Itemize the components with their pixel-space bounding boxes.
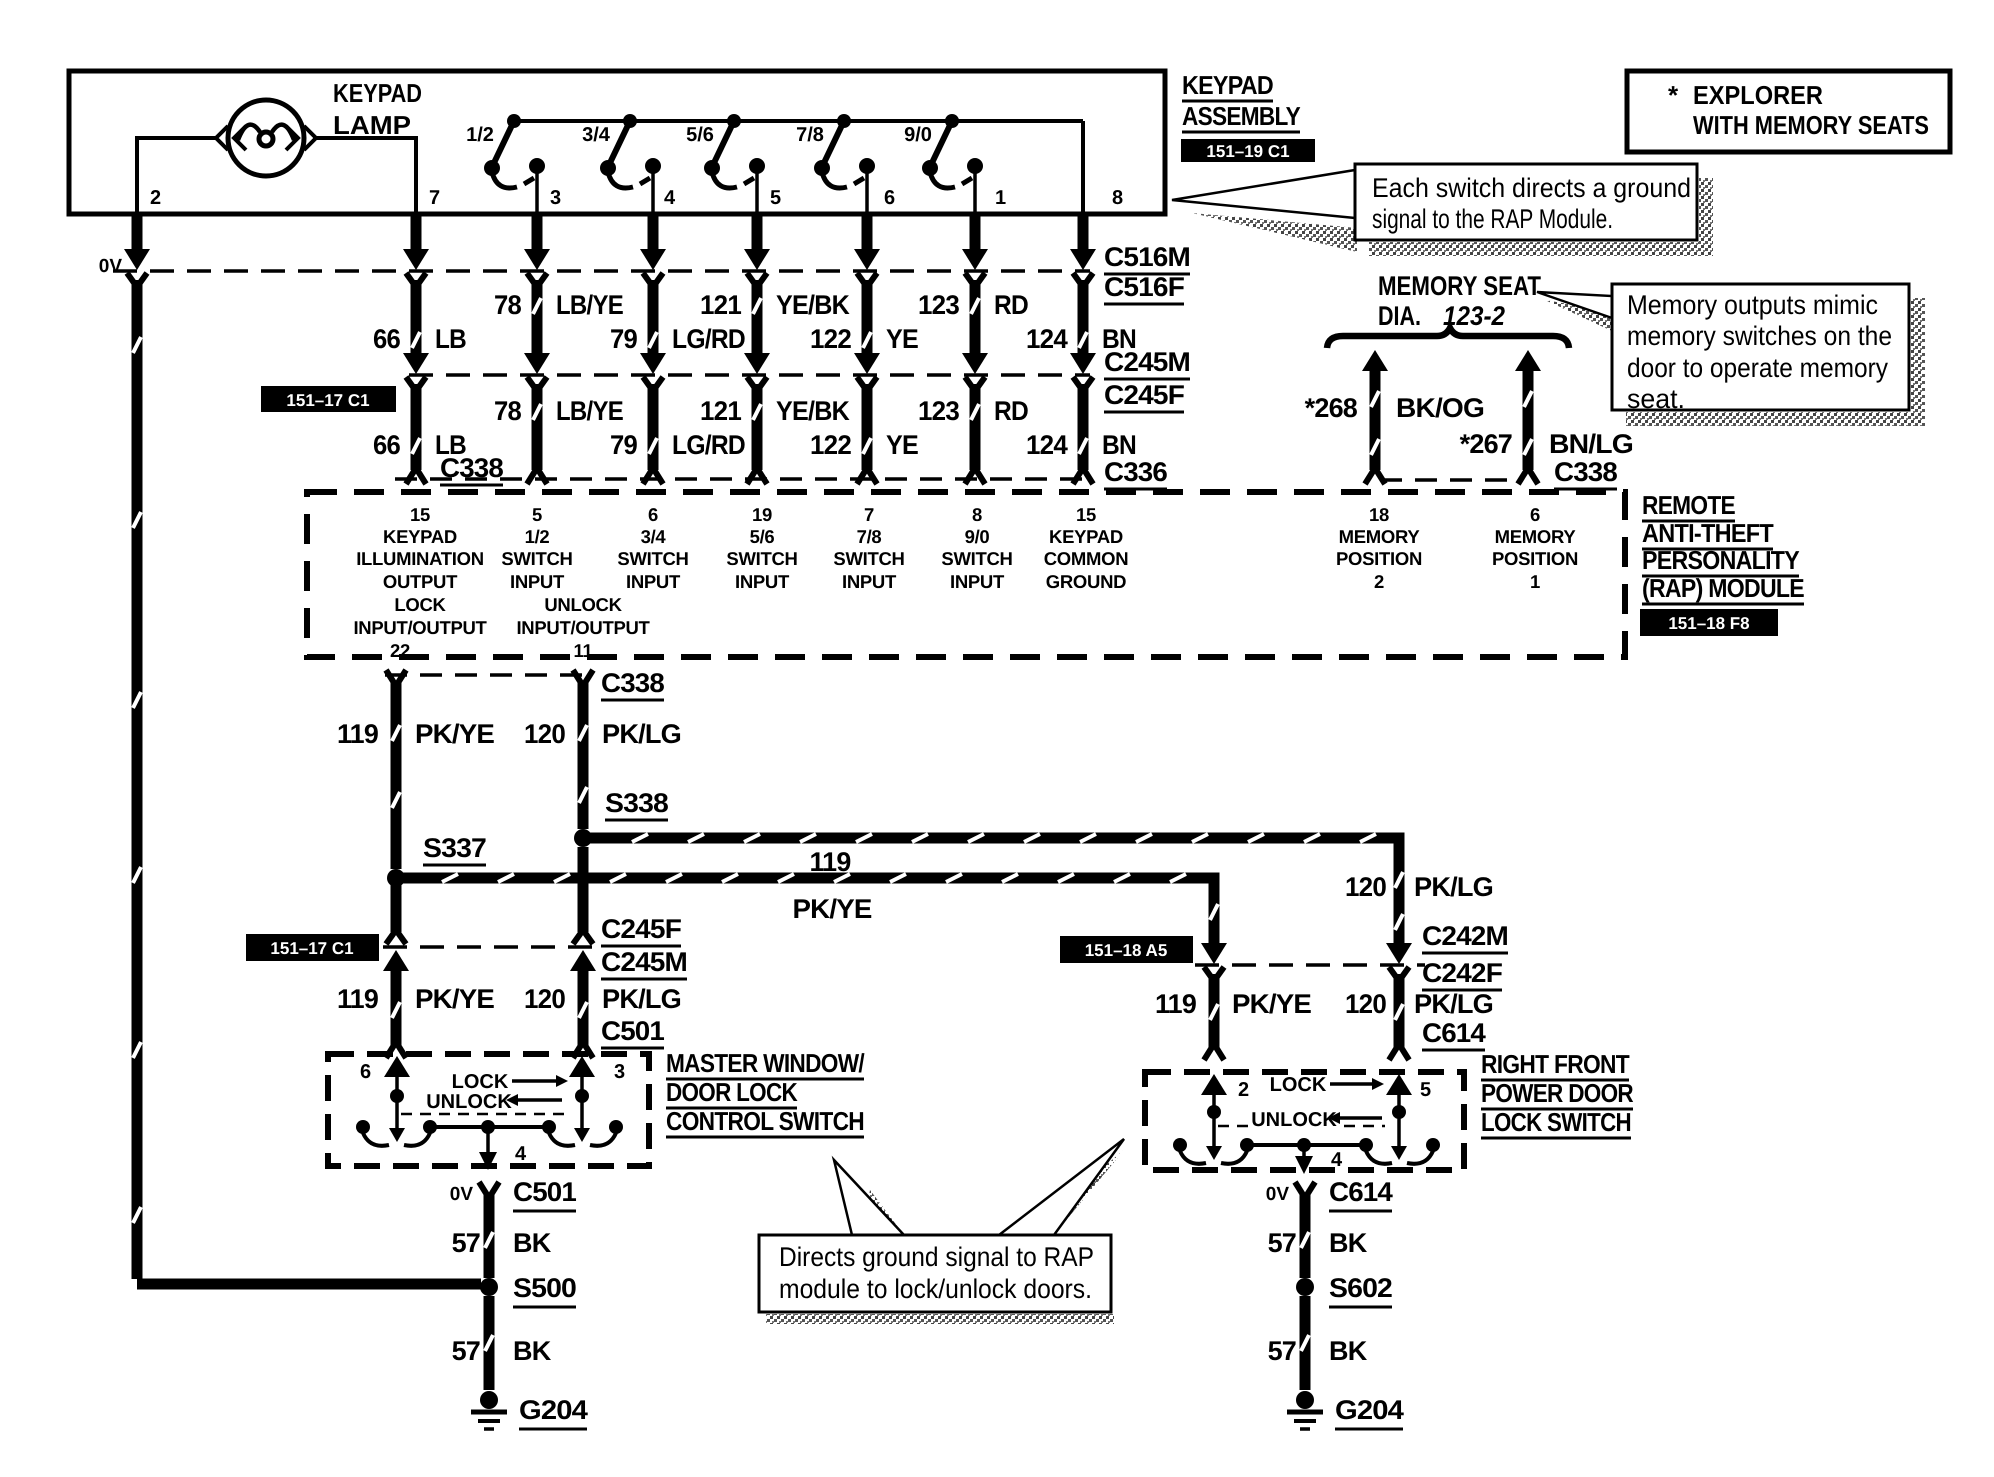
svg-text:78: 78 xyxy=(494,290,522,320)
svg-text:3/4: 3/4 xyxy=(641,526,667,547)
svg-text:C516F: C516F xyxy=(1104,272,1184,302)
svg-text:INPUT/OUTPUT: INPUT/OUTPUT xyxy=(353,617,487,638)
svg-text:120: 120 xyxy=(1345,872,1386,902)
svg-text:DOOR LOCK: DOOR LOCK xyxy=(666,1077,798,1107)
svg-text:INPUT: INPUT xyxy=(626,571,681,592)
svg-text:LG/RD: LG/RD xyxy=(672,324,745,354)
svg-text:PK/YE: PK/YE xyxy=(415,984,494,1014)
svg-text:DIA.: DIA. xyxy=(1378,301,1421,331)
svg-text:C501: C501 xyxy=(601,1016,665,1046)
svg-text:PK/LG: PK/LG xyxy=(1414,872,1493,902)
svg-text:S337: S337 xyxy=(423,833,486,863)
svg-text:YE: YE xyxy=(886,430,918,460)
svg-text:4: 4 xyxy=(1331,1149,1343,1171)
svg-text:BK/OG: BK/OG xyxy=(1396,393,1484,423)
svg-text:57: 57 xyxy=(452,1336,480,1366)
svg-text:6: 6 xyxy=(884,187,895,209)
svg-text:INPUT: INPUT xyxy=(950,571,1005,592)
svg-text:7: 7 xyxy=(864,504,874,525)
svg-text:KEYPAD: KEYPAD xyxy=(333,78,422,108)
svg-text:57: 57 xyxy=(1268,1228,1296,1258)
svg-text:POSITION: POSITION xyxy=(1336,548,1422,569)
svg-text:5: 5 xyxy=(1420,1079,1431,1101)
svg-text:BN: BN xyxy=(1102,430,1136,460)
svg-text:LOCK SWITCH: LOCK SWITCH xyxy=(1481,1107,1631,1137)
svg-text:121: 121 xyxy=(700,396,742,426)
svg-text:YE: YE xyxy=(886,324,918,354)
svg-text:151–17 C1: 151–17 C1 xyxy=(270,939,353,958)
svg-text:2: 2 xyxy=(1238,1079,1249,1101)
svg-text:LOCK: LOCK xyxy=(394,594,446,615)
svg-text:123: 123 xyxy=(918,396,960,426)
svg-text:5: 5 xyxy=(770,187,781,209)
svg-text:memory switches on the: memory switches on the xyxy=(1627,321,1892,351)
svg-text:LB/YE: LB/YE xyxy=(556,396,623,426)
svg-text:119: 119 xyxy=(337,984,379,1014)
svg-text:KEYPAD: KEYPAD xyxy=(1049,526,1123,547)
svg-text:G204: G204 xyxy=(1335,1395,1404,1425)
svg-text:2: 2 xyxy=(1374,571,1384,592)
svg-text:C338: C338 xyxy=(1554,457,1618,487)
svg-text:151–19 C1: 151–19 C1 xyxy=(1206,142,1289,161)
svg-text:YE/BK: YE/BK xyxy=(776,396,850,426)
svg-text:0V: 0V xyxy=(450,1184,474,1205)
svg-text:S602: S602 xyxy=(1329,1273,1392,1303)
svg-text:6: 6 xyxy=(1530,504,1540,525)
svg-text:22: 22 xyxy=(390,640,410,661)
svg-text:151–17 C1: 151–17 C1 xyxy=(286,391,369,410)
svg-text:LB: LB xyxy=(435,324,466,354)
svg-text:KEYPAD: KEYPAD xyxy=(1182,70,1273,100)
svg-text:POSITION: POSITION xyxy=(1492,548,1578,569)
svg-text:151–18 F8: 151–18 F8 xyxy=(1668,614,1749,633)
svg-text:15: 15 xyxy=(410,504,430,525)
svg-text:5: 5 xyxy=(532,504,542,525)
svg-text:UNLOCK: UNLOCK xyxy=(426,1091,512,1113)
svg-text:C338: C338 xyxy=(440,453,504,483)
svg-text:7/8: 7/8 xyxy=(796,124,824,146)
svg-text:SWITCH: SWITCH xyxy=(941,548,1012,569)
svg-text:57: 57 xyxy=(1268,1336,1296,1366)
svg-text:ILLUMINATION: ILLUMINATION xyxy=(356,548,484,569)
svg-text:S500: S500 xyxy=(513,1273,576,1303)
svg-text:INPUT: INPUT xyxy=(735,571,790,592)
svg-text:120: 120 xyxy=(1345,989,1386,1019)
svg-text:signal to the RAP Module.: signal to the RAP Module. xyxy=(1372,204,1613,234)
svg-text:LG/RD: LG/RD xyxy=(672,430,745,460)
svg-text:G204: G204 xyxy=(519,1395,588,1425)
svg-text:3: 3 xyxy=(614,1061,625,1083)
svg-text:SWITCH: SWITCH xyxy=(726,548,797,569)
svg-text:119: 119 xyxy=(1155,989,1197,1019)
svg-text:PK/YE: PK/YE xyxy=(415,719,494,749)
svg-text:RD: RD xyxy=(994,396,1028,426)
svg-text:7: 7 xyxy=(429,187,440,209)
svg-text:Memory outputs mimic: Memory outputs mimic xyxy=(1627,290,1878,320)
svg-text:C245M: C245M xyxy=(601,947,687,977)
svg-text:79: 79 xyxy=(610,324,638,354)
svg-text:BN/LG: BN/LG xyxy=(1549,429,1633,459)
svg-text:1/2: 1/2 xyxy=(525,526,550,547)
svg-text:S338: S338 xyxy=(605,788,669,818)
svg-text:*: * xyxy=(1668,80,1679,110)
svg-text:PK/LG: PK/LG xyxy=(602,984,681,1014)
svg-text:EXPLORER: EXPLORER xyxy=(1693,80,1823,110)
svg-text:7/8: 7/8 xyxy=(857,526,882,547)
svg-text:MEMORY: MEMORY xyxy=(1339,526,1421,547)
svg-text:LAMP: LAMP xyxy=(333,110,411,140)
svg-text:3: 3 xyxy=(550,187,561,209)
svg-text:PK/LG: PK/LG xyxy=(1414,989,1493,1019)
svg-text:REMOTE: REMOTE xyxy=(1642,490,1735,520)
svg-text:15: 15 xyxy=(1076,504,1096,525)
svg-text:C338: C338 xyxy=(601,668,665,698)
svg-text:LOCK: LOCK xyxy=(1270,1074,1327,1096)
svg-text:Each switch directs a ground: Each switch directs a ground xyxy=(1372,173,1691,203)
svg-text:SWITCH: SWITCH xyxy=(617,548,688,569)
svg-text:MASTER WINDOW/: MASTER WINDOW/ xyxy=(666,1048,864,1078)
svg-text:RIGHT FRONT: RIGHT FRONT xyxy=(1481,1049,1630,1079)
svg-text:6: 6 xyxy=(360,1061,371,1083)
svg-text:18: 18 xyxy=(1369,504,1389,525)
svg-text:19: 19 xyxy=(752,504,772,525)
svg-text:BK: BK xyxy=(1329,1336,1368,1366)
svg-text:5/6: 5/6 xyxy=(686,124,714,146)
svg-text:C242F: C242F xyxy=(1422,958,1502,988)
svg-text:CONTROL SWITCH: CONTROL SWITCH xyxy=(666,1106,864,1136)
svg-text:MEMORY SEAT: MEMORY SEAT xyxy=(1378,271,1541,301)
svg-text:120: 120 xyxy=(524,984,565,1014)
svg-text:C242M: C242M xyxy=(1422,921,1508,951)
svg-text:9/0: 9/0 xyxy=(904,124,932,146)
svg-text:*268: *268 xyxy=(1305,393,1358,423)
svg-text:121: 121 xyxy=(700,290,742,320)
svg-text:SWITCH: SWITCH xyxy=(501,548,572,569)
svg-text:LB/YE: LB/YE xyxy=(556,290,623,320)
svg-text:123: 123 xyxy=(918,290,960,320)
svg-text:0V: 0V xyxy=(99,256,123,277)
svg-text:C245F: C245F xyxy=(1104,380,1184,410)
svg-text:1: 1 xyxy=(1530,571,1540,592)
svg-text:151–18 A5: 151–18 A5 xyxy=(1085,941,1168,960)
svg-text:OUTPUT: OUTPUT xyxy=(383,571,458,592)
svg-text:3/4: 3/4 xyxy=(582,124,611,146)
svg-text:ANTI-THEFT: ANTI-THEFT xyxy=(1642,518,1774,548)
svg-text:124: 124 xyxy=(1026,430,1068,460)
svg-text:WITH MEMORY SEATS: WITH MEMORY SEATS xyxy=(1693,110,1929,140)
svg-text:PK/LG: PK/LG xyxy=(602,719,681,749)
svg-text:C501: C501 xyxy=(513,1177,577,1207)
svg-text:119: 119 xyxy=(337,719,379,749)
svg-text:11: 11 xyxy=(574,640,593,661)
svg-text:INPUT/OUTPUT: INPUT/OUTPUT xyxy=(516,617,650,638)
svg-text:seat.: seat. xyxy=(1627,384,1685,414)
svg-text:INPUT: INPUT xyxy=(842,571,897,592)
svg-text:UNLOCK: UNLOCK xyxy=(1251,1109,1337,1131)
svg-text:COMMON: COMMON xyxy=(1044,548,1129,569)
svg-text:2: 2 xyxy=(150,187,161,209)
svg-text:UNLOCK: UNLOCK xyxy=(544,594,622,615)
svg-text:RD: RD xyxy=(994,290,1028,320)
svg-text:8: 8 xyxy=(972,504,982,525)
svg-text:BK: BK xyxy=(513,1228,552,1258)
svg-text:8: 8 xyxy=(1112,187,1123,209)
svg-text:0V: 0V xyxy=(1266,1184,1290,1205)
svg-text:(RAP) MODULE: (RAP) MODULE xyxy=(1642,573,1804,603)
svg-text:LOCK: LOCK xyxy=(452,1071,509,1093)
svg-text:119: 119 xyxy=(810,847,852,877)
svg-text:PERSONALITY: PERSONALITY xyxy=(1642,545,1799,575)
svg-text:6: 6 xyxy=(648,504,658,525)
svg-text:door to operate memory: door to operate memory xyxy=(1627,353,1888,383)
svg-text:124: 124 xyxy=(1026,324,1068,354)
svg-text:ASSEMBLY: ASSEMBLY xyxy=(1182,101,1300,131)
svg-text:9/0: 9/0 xyxy=(965,526,990,547)
svg-text:78: 78 xyxy=(494,396,522,426)
svg-text:KEYPAD: KEYPAD xyxy=(383,526,457,547)
svg-text:4: 4 xyxy=(664,187,676,209)
svg-text:PK/YE: PK/YE xyxy=(793,894,872,924)
svg-text:C614: C614 xyxy=(1422,1018,1486,1048)
svg-text:66: 66 xyxy=(373,324,401,354)
svg-text:C516M: C516M xyxy=(1104,242,1190,272)
svg-text:120: 120 xyxy=(524,719,565,749)
svg-text:INPUT: INPUT xyxy=(510,571,565,592)
svg-text:SWITCH: SWITCH xyxy=(833,548,904,569)
svg-text:4: 4 xyxy=(515,1143,527,1165)
svg-text:122: 122 xyxy=(810,324,851,354)
svg-text:66: 66 xyxy=(373,430,401,460)
svg-text:5/6: 5/6 xyxy=(750,526,775,547)
svg-text:YE/BK: YE/BK xyxy=(776,290,850,320)
svg-text:BK: BK xyxy=(513,1336,552,1366)
svg-text:C336: C336 xyxy=(1104,457,1168,487)
svg-text:79: 79 xyxy=(610,430,638,460)
svg-text:57: 57 xyxy=(452,1228,480,1258)
svg-text:1/2: 1/2 xyxy=(466,124,494,146)
svg-text:C245M: C245M xyxy=(1104,347,1190,377)
svg-text:GROUND: GROUND xyxy=(1046,571,1126,592)
svg-text:BK: BK xyxy=(1329,1228,1368,1258)
svg-text:1: 1 xyxy=(995,187,1006,209)
svg-text:C245F: C245F xyxy=(601,914,681,944)
svg-text:*267: *267 xyxy=(1460,429,1512,459)
svg-text:module to lock/unlock doors.: module to lock/unlock doors. xyxy=(779,1274,1092,1304)
svg-text:122: 122 xyxy=(810,430,851,460)
svg-text:MEMORY: MEMORY xyxy=(1495,526,1577,547)
svg-text:POWER DOOR: POWER DOOR xyxy=(1481,1078,1634,1108)
svg-text:Directs ground signal to RAP: Directs ground signal to RAP xyxy=(779,1242,1094,1272)
svg-text:PK/YE: PK/YE xyxy=(1232,989,1311,1019)
svg-text:C614: C614 xyxy=(1329,1177,1393,1207)
